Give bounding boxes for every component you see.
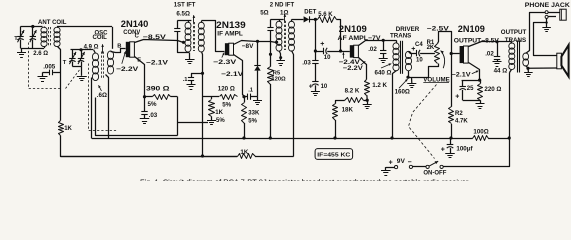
svg-text:2K: 2K xyxy=(427,45,435,51)
capacitor C4 10 (electrolytic) xyxy=(417,50,421,56)
label 2N109 xyxy=(458,24,485,34)
label 1K xyxy=(240,149,248,156)
wire xyxy=(61,136,238,157)
wire xyxy=(202,21,225,52)
oscillator coil T1 feedback winding xyxy=(107,51,113,74)
wire xyxy=(21,48,45,50)
label -2.1V xyxy=(146,59,169,66)
resistor 1K xyxy=(238,154,256,159)
svg-text:100Ω: 100Ω xyxy=(473,129,488,136)
arrow xyxy=(122,51,126,64)
label 6.5 ohm xyxy=(176,10,190,17)
label R1 xyxy=(427,40,435,46)
IFT2 secondary winding xyxy=(289,19,295,51)
wire xyxy=(438,32,452,54)
resistor 5.6K xyxy=(318,17,337,23)
output transformer primary xyxy=(509,42,515,73)
diode DET xyxy=(304,16,310,22)
label .6 ohm xyxy=(97,92,107,99)
resistor 120 ohm xyxy=(220,95,238,100)
switch contact xyxy=(426,165,429,168)
label 120 ohm xyxy=(271,77,286,83)
capacitor (IFT2 tuning) xyxy=(267,19,273,30)
svg-text:TRANS: TRANS xyxy=(390,32,411,39)
wire xyxy=(336,101,345,104)
wire xyxy=(315,63,317,81)
gang dashed link xyxy=(89,64,117,131)
label DRIVER xyxy=(396,26,420,33)
svg-text:1K: 1K xyxy=(240,149,248,156)
node junction xyxy=(449,136,452,139)
label .03 xyxy=(302,60,311,67)
label + xyxy=(320,41,324,48)
svg-text:.1: .1 xyxy=(248,87,254,93)
svg-text:8.2 K: 8.2 K xyxy=(345,87,360,94)
node junction xyxy=(201,154,204,157)
wire xyxy=(309,19,317,21)
transistor 2N140 (converter) xyxy=(126,42,135,57)
wire xyxy=(191,73,203,75)
svg-text:T: T xyxy=(14,36,18,42)
label .1 xyxy=(248,87,254,93)
svg-text:1K: 1K xyxy=(64,126,72,132)
resistor 220 ohm xyxy=(478,80,483,100)
svg-text:5Ω: 5Ω xyxy=(260,10,268,17)
svg-text:.03: .03 xyxy=(302,60,311,67)
antenna coil L1 secondary xyxy=(54,27,60,47)
svg-text:+: + xyxy=(455,94,459,101)
output transformer secondary xyxy=(523,53,529,66)
node junction xyxy=(242,136,245,139)
wire xyxy=(202,52,203,157)
gang dashed link xyxy=(29,43,62,89)
label 33K xyxy=(248,110,260,116)
node junction xyxy=(314,49,317,52)
wire xyxy=(534,19,557,56)
svg-text:4.9 Ω: 4.9 Ω xyxy=(84,44,99,50)
node junction xyxy=(382,39,385,42)
svg-text:PHONE JACK: PHONE JACK xyxy=(525,2,571,9)
label 100 ohm xyxy=(473,129,488,136)
svg-text:5%: 5% xyxy=(222,101,231,108)
node junction xyxy=(508,136,511,139)
label OUTPUT xyxy=(501,29,527,36)
ground xyxy=(379,59,388,63)
arrow xyxy=(399,79,408,88)
svg-text:33K: 33K xyxy=(248,110,260,116)
label 5% xyxy=(222,101,231,108)
svg-text:−2.2V: −2.2V xyxy=(116,66,139,73)
wire xyxy=(462,80,480,82)
ground xyxy=(185,53,195,64)
wire xyxy=(412,166,426,168)
label 5% xyxy=(216,118,225,124)
wire (ground bus) xyxy=(255,156,294,158)
IFT2 primary winding xyxy=(276,19,282,51)
svg-text:R2: R2 xyxy=(455,111,463,117)
ground xyxy=(407,77,416,87)
label -2.3V xyxy=(213,59,237,66)
capacitor .1 xyxy=(244,94,258,100)
node junction xyxy=(495,40,498,43)
wire xyxy=(366,95,368,100)
box IF=455KC xyxy=(315,149,353,160)
ground xyxy=(77,66,87,80)
label 18K xyxy=(342,107,354,114)
svg-text:10: 10 xyxy=(321,84,328,90)
label B xyxy=(117,43,121,49)
ground xyxy=(493,62,502,67)
wire xyxy=(488,138,509,140)
label 5 ohm xyxy=(260,10,268,17)
ground xyxy=(311,85,320,95)
svg-text:5%: 5% xyxy=(248,118,257,124)
wire xyxy=(292,19,304,21)
svg-text:.02: .02 xyxy=(368,46,377,53)
core xyxy=(285,21,286,50)
svg-text:5.6 K: 5.6 K xyxy=(318,12,333,18)
label E xyxy=(137,58,141,64)
wire xyxy=(444,73,510,167)
transistor 2N109 (output) xyxy=(460,46,469,63)
svg-text:220 Ω: 220 Ω xyxy=(484,86,501,93)
label AF AMPL -7V xyxy=(338,35,382,42)
resistor R-AGC 1K xyxy=(59,121,64,136)
label + xyxy=(455,94,459,101)
svg-text:T: T xyxy=(63,60,67,66)
svg-text:+: + xyxy=(320,41,324,48)
caption (clipped) xyxy=(140,178,470,187)
wire xyxy=(279,51,281,54)
label .02 xyxy=(485,51,494,58)
label 1K xyxy=(215,110,223,116)
speaker xyxy=(557,45,569,77)
svg-text:ON-OFF: ON-OFF xyxy=(423,170,446,176)
diode (AGC) xyxy=(254,41,260,96)
arrow xyxy=(99,85,102,91)
label 390 ohm xyxy=(146,85,170,92)
svg-text:−8V: −8V xyxy=(242,43,254,50)
label + xyxy=(309,83,313,90)
label 1K xyxy=(64,126,72,132)
svg-text:+: + xyxy=(411,46,415,53)
node junction xyxy=(545,21,547,23)
label -2.4V xyxy=(339,59,361,66)
svg-text:18K: 18K xyxy=(342,107,354,114)
svg-text:9V: 9V xyxy=(397,158,406,165)
wire xyxy=(58,47,61,121)
label 10 xyxy=(324,55,331,61)
wire xyxy=(106,75,109,139)
driver transformer secondary xyxy=(405,51,411,71)
label 640 ohm xyxy=(375,69,392,76)
resistor 1K 5% xyxy=(209,97,215,120)
node junction xyxy=(256,40,259,43)
label 100uf xyxy=(456,145,473,152)
antenna coil L1 primary xyxy=(41,27,47,49)
trimmer capacitor CT2 xyxy=(78,50,85,67)
wire xyxy=(71,49,94,51)
wire xyxy=(408,71,410,78)
svg-text:OUTPUT: OUTPUT xyxy=(501,29,527,36)
node junction xyxy=(339,49,342,52)
svg-text:+: + xyxy=(309,83,313,90)
ground xyxy=(187,85,196,90)
label 2K xyxy=(427,45,435,51)
svg-text:.6Ω: .6Ω xyxy=(97,92,107,99)
svg-text:390 Ω: 390 Ω xyxy=(146,85,170,92)
ground xyxy=(476,100,485,108)
label TRANS xyxy=(505,37,526,44)
svg-text:−2.1V: −2.1V xyxy=(146,59,169,66)
wire xyxy=(393,71,397,139)
core xyxy=(401,41,403,74)
svg-text:1.2 K: 1.2 K xyxy=(372,82,387,89)
wire xyxy=(91,78,93,139)
svg-text:100μf: 100μf xyxy=(456,145,473,152)
wire xyxy=(463,100,480,102)
svg-text:5%: 5% xyxy=(148,101,157,108)
arrow xyxy=(381,63,391,68)
ground xyxy=(140,119,150,124)
label 160 ohm xyxy=(395,88,410,95)
gang dashed link xyxy=(66,69,81,89)
label ANT COIL xyxy=(38,19,67,26)
capacitor 25 (electrolytic) xyxy=(460,80,466,100)
wire xyxy=(292,51,294,157)
capacitor .03 xyxy=(141,97,147,119)
svg-text:Fig. 1. Circuit diagram of RCA: Fig. 1. Circuit diagram of RCA 7-BT-9J t… xyxy=(140,178,470,181)
label 1 ohm xyxy=(280,10,288,17)
wire xyxy=(72,66,81,68)
wire xyxy=(111,49,126,53)
label IF AMPL xyxy=(217,31,243,37)
switch contact xyxy=(440,165,443,168)
node junction xyxy=(526,67,529,70)
collector wire xyxy=(135,40,184,43)
arrow xyxy=(222,53,225,58)
label .02 xyxy=(368,46,377,53)
tuning slug arrow xyxy=(101,44,104,53)
wire xyxy=(315,51,323,53)
svg-text:−2.3V: −2.3V xyxy=(213,59,237,66)
label 2N140 xyxy=(121,19,149,29)
wire xyxy=(112,27,114,49)
resistor 1.2K xyxy=(365,80,370,96)
IFT1 primary winding xyxy=(185,21,191,52)
emitter wire xyxy=(135,57,145,97)
svg-text:IF AMPL: IF AMPL xyxy=(217,31,243,37)
node junction xyxy=(31,25,34,28)
label C xyxy=(135,34,140,40)
phone jack tip contact xyxy=(545,11,548,14)
wire xyxy=(57,26,112,28)
svg-text:4.7K: 4.7K xyxy=(455,118,468,124)
label CONV xyxy=(123,29,141,36)
svg-text:2 ND IFT: 2 ND IFT xyxy=(270,2,295,8)
label -2.5V xyxy=(427,25,450,32)
svg-text:.02: .02 xyxy=(485,51,494,58)
emitter wire xyxy=(469,63,480,81)
ground xyxy=(207,121,216,125)
label 25 xyxy=(467,86,474,92)
wire xyxy=(177,20,191,22)
variable capacitor C1A (tuning, ant) xyxy=(17,27,24,49)
phone jack ring contact xyxy=(545,15,548,18)
label -2.1V xyxy=(221,71,244,78)
node junction (IFT2 tap) xyxy=(275,41,278,44)
node junction xyxy=(269,136,272,139)
ground xyxy=(381,167,395,175)
label 120 ohm xyxy=(218,86,235,93)
label 1.2K xyxy=(372,82,387,89)
svg-text:2N109: 2N109 xyxy=(458,24,485,34)
label 10 xyxy=(321,84,328,90)
resistor R2 4.7K xyxy=(449,107,454,139)
svg-text:−2.2V: −2.2V xyxy=(343,65,364,72)
label .005 xyxy=(43,63,56,70)
svg-text:−2.5V: −2.5V xyxy=(427,25,450,32)
variable capacitor C1B (tuning, osc) xyxy=(69,50,76,67)
wiper arrow xyxy=(441,51,445,69)
label R2 xyxy=(455,111,463,117)
svg-text:+: + xyxy=(389,159,393,166)
label DET xyxy=(304,9,316,15)
label 4.9 ohm xyxy=(84,44,99,50)
wire xyxy=(178,32,190,53)
svg-text:.005: .005 xyxy=(43,63,56,70)
wire xyxy=(177,97,179,136)
node junction xyxy=(450,52,453,55)
capacitor .005 xyxy=(50,70,53,76)
node junction xyxy=(390,136,393,139)
wire xyxy=(510,42,513,44)
label C4 xyxy=(415,42,423,48)
node junction xyxy=(406,76,409,79)
node junction xyxy=(478,79,481,82)
collector wire xyxy=(234,41,277,45)
wire xyxy=(43,72,50,74)
wire xyxy=(327,51,350,53)
node junction xyxy=(269,53,272,56)
label 10 xyxy=(416,57,423,63)
wire xyxy=(364,100,368,102)
svg-text:10: 10 xyxy=(416,57,423,63)
svg-text:160Ω: 160Ω xyxy=(395,88,410,95)
label 5% xyxy=(248,118,257,124)
wire xyxy=(420,53,435,55)
label -2.2V xyxy=(116,66,139,73)
wire xyxy=(53,72,61,74)
core xyxy=(102,52,104,80)
svg-text:−2.1V: −2.1V xyxy=(221,71,244,78)
ground xyxy=(17,48,26,57)
svg-text:TRANS: TRANS xyxy=(505,37,526,44)
label -2.1V xyxy=(452,72,472,79)
label 1ST IFT xyxy=(174,2,196,8)
wire xyxy=(315,19,317,60)
collector wire xyxy=(469,42,512,47)
label 2N139 xyxy=(216,20,246,30)
ground xyxy=(38,72,48,81)
label 220 ohm xyxy=(484,86,501,93)
label -2.2V xyxy=(343,65,364,72)
tuning arrow xyxy=(193,15,196,22)
label 5.6K xyxy=(318,12,333,18)
potentiometer R1 2K (volume) xyxy=(435,44,440,64)
svg-text:−2.1V: −2.1V xyxy=(452,72,472,79)
core xyxy=(49,27,51,47)
label T (osc trimmer) xyxy=(63,60,67,66)
svg-text:2N109: 2N109 xyxy=(339,24,367,34)
transistor 2N109 (AF amplifier) xyxy=(350,45,359,57)
label OSC COIL xyxy=(93,30,109,41)
node junction xyxy=(333,136,336,139)
svg-text:1K: 1K xyxy=(215,110,223,116)
collector wire xyxy=(359,41,397,46)
IFT1 secondary winding xyxy=(198,21,204,52)
wire xyxy=(548,16,556,18)
capacitor .02 xyxy=(494,42,500,62)
capacitor .03 xyxy=(312,61,318,64)
phone jack plug xyxy=(560,9,566,20)
svg-text:5%: 5% xyxy=(216,118,225,124)
battery terminal - xyxy=(409,165,412,168)
label 2ND IFT xyxy=(270,2,295,8)
wire (B- bus) xyxy=(92,138,473,140)
svg-text:COIL: COIL xyxy=(93,35,108,41)
ground xyxy=(253,97,262,105)
ground xyxy=(276,54,285,66)
core xyxy=(194,22,195,51)
gang dashed link (volume to switch) xyxy=(409,85,437,159)
resistor 18K xyxy=(333,104,338,139)
label 2N109 xyxy=(339,24,367,34)
label + xyxy=(411,46,415,53)
svg-text:2N139: 2N139 xyxy=(216,20,246,30)
svg-text:IF=455 KC: IF=455 KC xyxy=(317,153,351,159)
label T (trimmer) xyxy=(14,36,18,42)
switch arm xyxy=(429,161,438,166)
label + xyxy=(441,147,445,154)
wire xyxy=(96,98,178,136)
wire xyxy=(548,12,560,14)
emitter wire xyxy=(359,58,367,80)
resistor 100 ohm xyxy=(473,136,489,141)
svg-text:120 Ω: 120 Ω xyxy=(218,86,235,93)
svg-text:+: + xyxy=(441,147,445,154)
ground xyxy=(542,23,551,32)
svg-text:1ST IFT: 1ST IFT xyxy=(174,2,196,8)
svg-text:640 Ω: 640 Ω xyxy=(375,69,392,76)
label R5 xyxy=(273,71,281,77)
label .03 xyxy=(149,112,158,119)
trimmer capacitor CT1 xyxy=(30,27,37,49)
label .1 xyxy=(183,77,189,83)
wire xyxy=(409,52,417,54)
wire xyxy=(526,13,546,54)
wire xyxy=(528,67,557,69)
svg-text:6.5Ω: 6.5Ω xyxy=(176,10,190,17)
svg-text:−8.5V: −8.5V xyxy=(143,34,167,41)
svg-text:10: 10 xyxy=(324,55,331,61)
wire xyxy=(429,64,439,78)
ground xyxy=(445,154,455,158)
wire xyxy=(177,122,208,124)
resistor 8.2K xyxy=(345,98,364,103)
node junction xyxy=(79,48,82,51)
svg-text:2N140: 2N140 xyxy=(121,19,149,29)
